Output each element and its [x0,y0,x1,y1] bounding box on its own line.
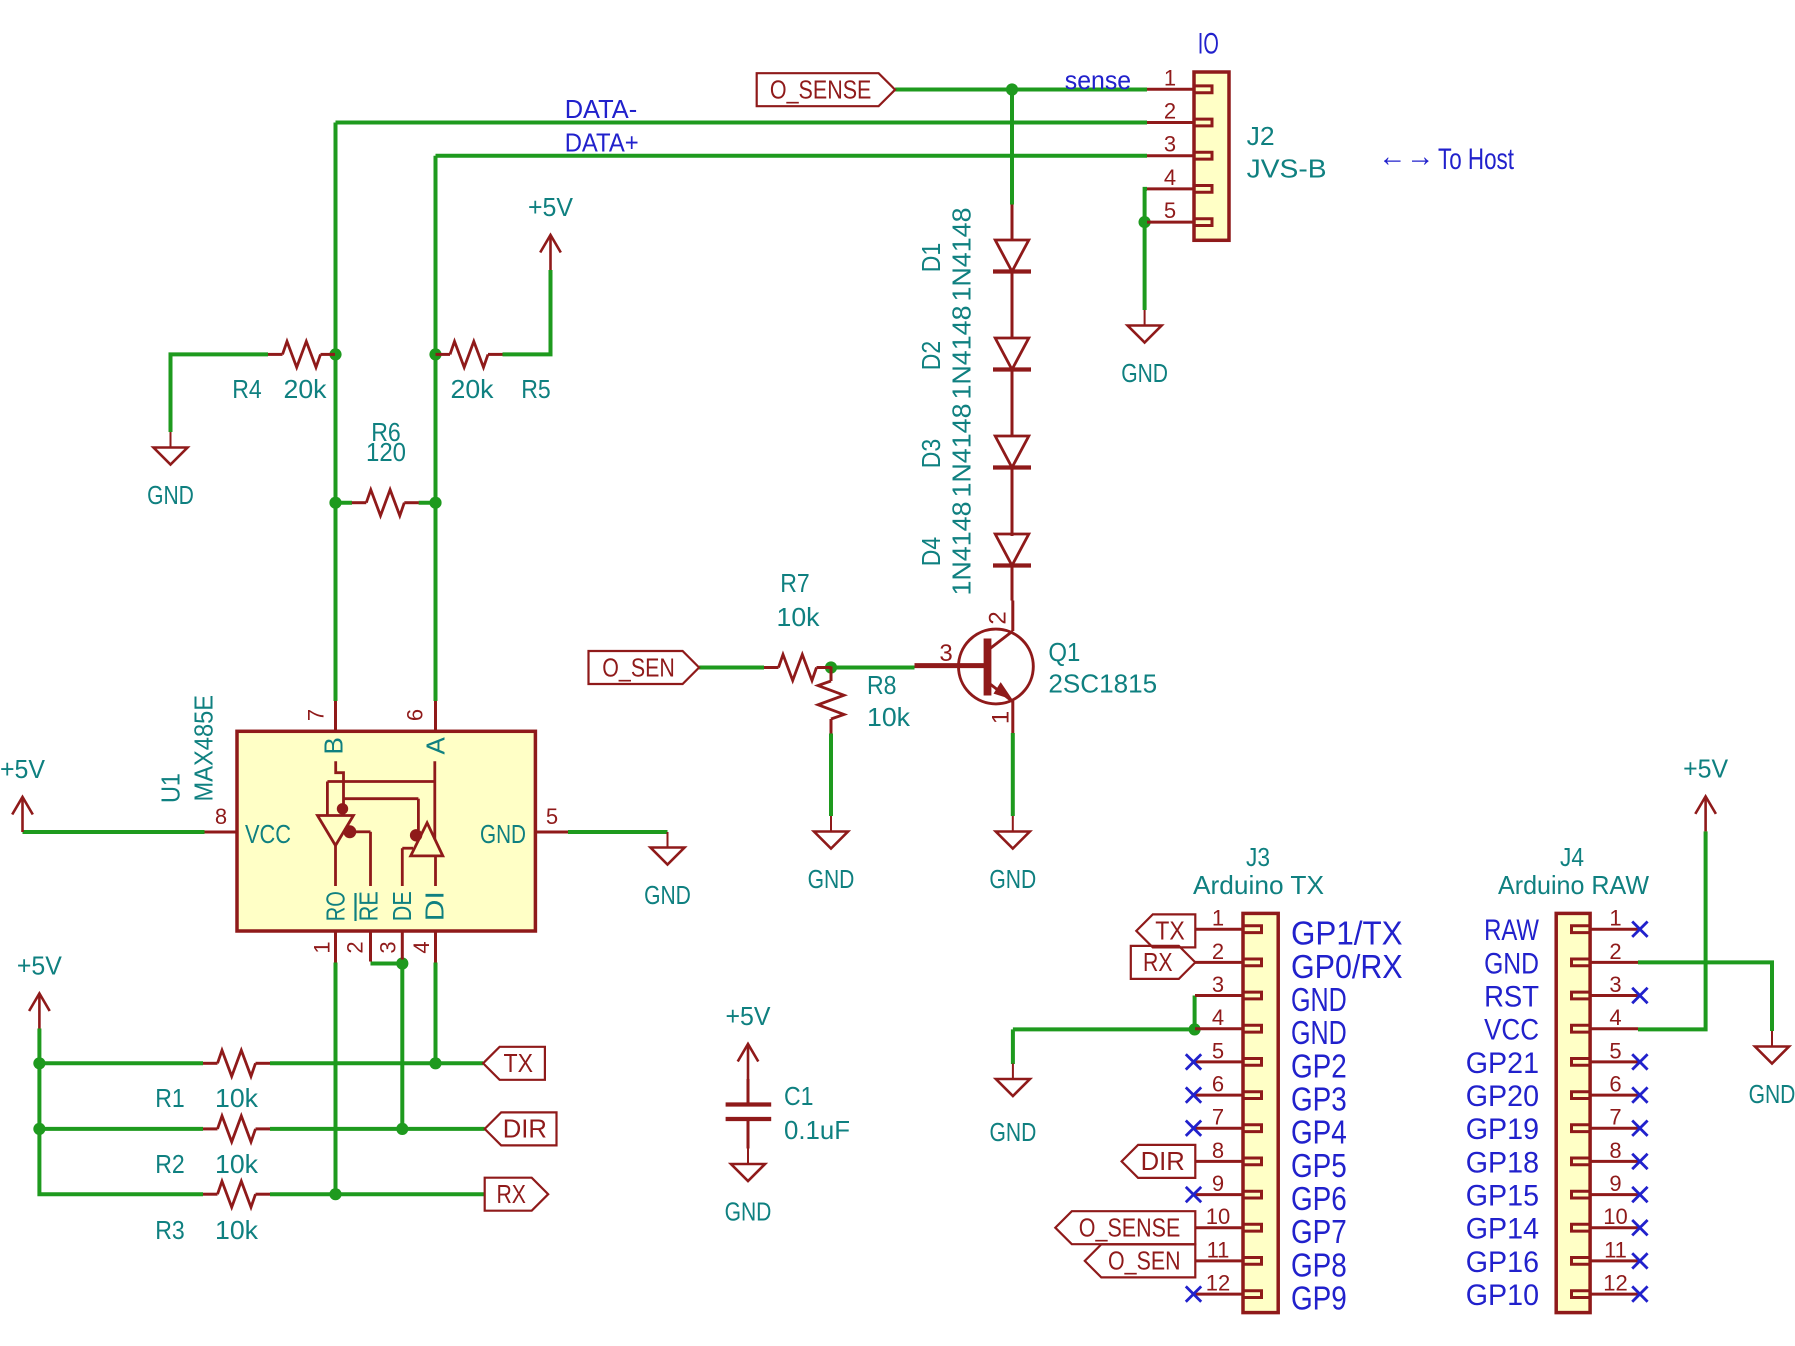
global label DIR (row) [485,1112,557,1145]
wire U1 DI to TX row [434,963,438,1064]
connector J4 body [1556,913,1590,1312]
wire J2 gnd drop [1143,222,1147,310]
J3 pin 12 no-connect [1186,1286,1201,1301]
svg-text:6: 6 [403,709,428,721]
J4 pin 8 no-connect [1632,1154,1647,1169]
svg-text:9: 9 [1212,1171,1224,1196]
svg-text:7: 7 [304,709,329,721]
svg-text:11: 11 [1604,1237,1627,1262]
global label O_SEN (J3) [1085,1244,1196,1277]
global label RX (J3) [1131,946,1196,979]
wire J2 pin4 to pin5 [1145,189,1147,222]
svg-text:GP2: GP2 [1291,1047,1347,1084]
svg-text:20k: 20k [284,374,328,404]
svg-text:1N4148: 1N4148 [947,404,977,498]
diode D4 1N4148 [995,534,1029,566]
svg-text:GP1/TX: GP1/TX [1291,915,1403,952]
wire R4 to GND [171,354,269,432]
svg-text:GND: GND [989,864,1036,894]
J4 pin 3 [1590,994,1638,997]
global label O_SENSE (top) [757,73,895,106]
J3 pin 9 [1195,1193,1243,1196]
J4 pin 6 [1590,1094,1638,1097]
diode D3 1N4148 [995,436,1029,468]
svg-text:1: 1 [987,711,1014,724]
resistor R8 [830,667,833,682]
junction sense/D1 [1006,83,1018,95]
svg-text:2SC1815: 2SC1815 [1048,669,1157,699]
wire rail to R2 [39,1127,203,1131]
wire J4 pin4 to +5V [1638,831,1706,1029]
J4 pin 9 [1590,1193,1638,1196]
svg-text:R2: R2 [155,1149,185,1179]
svg-text:MAX485E: MAX485E [189,695,219,802]
svg-text:GP15: GP15 [1466,1180,1539,1213]
svg-text:3: 3 [1212,972,1224,997]
svg-text:A: A [421,736,451,754]
J4 pin 10 [1590,1226,1638,1229]
svg-text:RE: RE [354,891,384,921]
J4 pin 9 no-connect [1632,1187,1647,1202]
power +5V (C1) [747,1044,750,1079]
J4 pin 2 [1590,961,1638,964]
U1 pins [334,701,337,731]
svg-text:Arduino TX: Arduino TX [1193,870,1324,900]
svg-text:+5V: +5V [1683,753,1729,783]
svg-text:TX: TX [504,1048,534,1078]
svg-text:+5V: +5V [528,192,574,222]
junction R4/DATA- [329,348,341,360]
junction J3 pin4 [1189,1023,1201,1035]
ground (J4 pin2) [1771,1031,1773,1046]
svg-text:DATA+: DATA+ [565,127,639,157]
J2 pin 5 [1147,221,1194,224]
svg-text:1N4148: 1N4148 [947,208,977,302]
svg-text:3: 3 [1164,132,1176,157]
svg-text:J2: J2 [1247,121,1275,151]
diode D1 1N4148 [995,240,1029,272]
svg-text:DIR: DIR [1141,1146,1185,1176]
svg-text:10k: 10k [215,1083,259,1113]
wire DATA- horizontal [336,121,1148,125]
svg-text:GND: GND [1749,1079,1795,1109]
ground (J3 pins3-4) [1012,1064,1014,1079]
connector J3 body [1243,913,1278,1312]
svg-text:GP3: GP3 [1291,1081,1347,1118]
wire +5V to U1 VCC [23,830,205,834]
svg-text:VCC: VCC [245,819,291,849]
svg-text:R7: R7 [780,568,810,598]
svg-text:GP14: GP14 [1466,1213,1539,1246]
wire U1 RE elbow [371,962,403,966]
svg-text:GND: GND [808,864,855,894]
J4 pin 11 no-connect [1632,1253,1647,1268]
J3 pin 5 no-connect [1186,1054,1201,1069]
connector J2 body [1194,72,1229,240]
junction R6 left [329,497,341,509]
svg-text:120: 120 [366,437,406,467]
wire J3 gnd drop [1011,1029,1015,1064]
svg-text:10: 10 [1206,1204,1230,1229]
svg-text:10k: 10k [215,1149,259,1179]
wire R5 to +5V [503,270,551,354]
svg-text:Q1: Q1 [1048,637,1080,667]
svg-text:RAW: RAW [1484,914,1539,947]
J3 pin 8 [1195,1160,1243,1163]
power +5V (pullup rail) [38,994,41,1029]
svg-text:GP10: GP10 [1466,1279,1539,1312]
svg-text:To Host: To Host [1438,143,1514,176]
svg-text:O_SENSE: O_SENSE [770,75,872,105]
wire J3 gnd horizontal [1013,1027,1195,1031]
resistor R5 [436,353,451,356]
svg-text:RO: RO [321,891,351,921]
J3 pin 5 [1195,1060,1243,1063]
junction DI/TX row [429,1057,441,1069]
wire DATA+ horizontal [436,154,1148,158]
ground (J2 pin5) [1144,310,1146,325]
svg-text:9: 9 [1609,1171,1621,1196]
junction rail/DIR row [33,1123,45,1135]
svg-text:1: 1 [310,941,335,953]
svg-text:1N4148: 1N4148 [947,502,977,596]
svg-text:+5V: +5V [726,1001,772,1031]
resistor R3 [203,1193,218,1196]
svg-text:5: 5 [1609,1038,1621,1063]
resistor R7 [764,666,779,669]
wire rail to R1 [39,1061,203,1065]
svg-text:5: 5 [1212,1038,1224,1063]
svg-text:10k: 10k [777,602,821,632]
J3 pin 12 [1195,1293,1243,1296]
junction R6 right [429,497,441,509]
U1 internal receiver/driver [336,761,344,815]
svg-text:R4: R4 [232,374,262,404]
svg-text:R8: R8 [867,670,897,700]
svg-text:2: 2 [1212,939,1224,964]
svg-text:4: 4 [409,941,434,953]
svg-text:TX: TX [1155,916,1185,946]
svg-text:8: 8 [1212,1138,1224,1163]
svg-text:1: 1 [1164,65,1176,90]
resistor R2 [203,1127,218,1130]
power +5V (J4 VCC) [1704,796,1707,831]
svg-text:D2: D2 [916,341,946,371]
J4 pin 12 no-connect [1632,1286,1647,1301]
svg-text:11: 11 [1207,1237,1230,1262]
svg-text:D3: D3 [916,439,946,469]
svg-text:DIR: DIR [503,1114,547,1144]
wire U1 RO to RX row [334,963,338,1195]
svg-text:RX: RX [496,1179,526,1209]
svg-text:GP8: GP8 [1291,1246,1347,1283]
svg-text:O_SEN: O_SEN [602,652,675,682]
global label TX (row) [483,1047,545,1080]
svg-text:2: 2 [342,941,367,953]
J4 pin 7 no-connect [1632,1121,1647,1136]
ground (U1 pin5) [667,832,669,847]
svg-text:5: 5 [1164,198,1176,223]
svg-text:12: 12 [1603,1271,1627,1296]
svg-text:VCC: VCC [1484,1014,1539,1047]
J2 pin 4 [1147,187,1194,190]
J4 pin 6 no-connect [1632,1087,1647,1102]
svg-text:C1: C1 [784,1081,814,1111]
svg-text:5: 5 [546,804,558,829]
junction R5/DATA+ [429,348,441,360]
svg-text:1: 1 [1212,906,1224,931]
svg-text:RX: RX [1143,947,1173,977]
svg-text:←→: ←→ [1378,140,1434,173]
J4 pin 5 [1590,1060,1638,1063]
resistor R4 [268,353,283,356]
wire J2 pin5 stub [1145,220,1147,224]
wire J3 pin3 drop [1193,996,1197,1030]
J3 pin 1 [1195,928,1243,931]
svg-text:3: 3 [939,640,952,667]
svg-text:D4: D4 [916,537,946,567]
resistor R6 [352,501,367,504]
wire DE/RE to DIR row [400,964,404,1129]
J2 pin 1 [1147,88,1194,91]
svg-text:4: 4 [1212,1005,1224,1030]
svg-text:J4: J4 [1560,842,1584,872]
junction RE/DE [396,957,408,969]
wire sense net [895,88,1147,92]
wire U1 DE stub [400,960,404,964]
svg-text:+5V: +5V [0,754,46,784]
junction DE/DIR row [396,1123,408,1135]
svg-text:GP19: GP19 [1466,1113,1539,1146]
capacitor C1 [747,1079,750,1105]
svg-text:R3: R3 [155,1215,185,1245]
svg-text:GND: GND [1291,1014,1347,1051]
J3 pin 4 [1195,1027,1243,1030]
J3 pin 7 no-connect [1186,1121,1201,1136]
junction J2 pin5 [1139,216,1151,228]
diode chain leads [1011,205,1014,240]
svg-text:7: 7 [1212,1105,1224,1130]
J3 pin 3 [1195,994,1243,997]
J4 pin 12 [1590,1293,1638,1296]
svg-text:JVS-B: JVS-B [1247,154,1327,184]
J4 pin 4 [1590,1027,1638,1030]
svg-text:R1: R1 [155,1083,185,1113]
svg-text:IO: IO [1198,27,1219,60]
J3 pin 9 no-connect [1186,1187,1201,1202]
svg-text:GP18: GP18 [1466,1146,1539,1179]
svg-text:U1: U1 [155,773,185,803]
J4 pin 10 no-connect [1632,1220,1647,1235]
svg-text:B: B [319,737,349,754]
svg-text:GP16: GP16 [1466,1246,1539,1279]
global label TX (J3) [1136,914,1195,947]
svg-text:GND: GND [1484,947,1539,980]
J3 pin 10 [1195,1226,1243,1229]
ground (Q1 emitter) [1012,816,1014,831]
J3 pin 2 [1195,961,1243,964]
svg-text:DE: DE [387,891,417,921]
svg-text:GP20: GP20 [1466,1080,1539,1113]
wire R1 to TX label [270,1061,483,1065]
svg-text:1N4148: 1N4148 [947,306,977,400]
svg-text:J3: J3 [1246,842,1270,872]
svg-text:2: 2 [984,611,1011,624]
ground (R4) [170,432,172,447]
J4 pin 5 no-connect [1632,1054,1647,1069]
J4 pin 3 no-connect [1632,988,1647,1003]
svg-text:7: 7 [1609,1105,1621,1130]
svg-text:GP0/RX: GP0/RX [1291,948,1403,985]
global label O_SENSE (J3) [1055,1211,1195,1244]
svg-text:GND: GND [1291,981,1347,1018]
svg-text:GP9: GP9 [1291,1280,1347,1317]
J3 pin 7 [1195,1127,1243,1130]
power +5V (U1 VCC) [21,797,24,832]
svg-text:3: 3 [376,941,401,953]
resistor R1 [203,1062,218,1065]
svg-text:GP4: GP4 [1291,1114,1347,1151]
J2 pin 2 [1147,121,1194,124]
wire Q1 emitter to GND [1011,733,1015,816]
svg-text:1: 1 [1609,906,1621,931]
svg-text:10k: 10k [867,702,911,732]
svg-text:10k: 10k [215,1215,259,1245]
svg-text:GND: GND [725,1197,772,1227]
svg-text:RST: RST [1484,981,1539,1014]
svg-text:O_SENSE: O_SENSE [1079,1213,1181,1243]
svg-text:DI: DI [419,891,449,921]
J4 pin 1 [1590,928,1638,931]
wire J4 pin2 to GND [1638,962,1772,1031]
power +5V (R5) [549,235,552,270]
junction R7/R8 [825,661,837,673]
svg-text:sense: sense [1065,65,1131,95]
global label O_SEN (R7) [589,651,700,684]
wire U1 GND pin 5 [568,830,668,834]
transistor Q1 2SC1815 [959,629,1034,704]
junction rail/TX row [33,1057,45,1069]
wire R3 to RX label [270,1192,485,1196]
svg-text:R5: R5 [521,374,551,404]
diode D2 1N4148 [995,338,1029,370]
J3 pin 11 [1195,1259,1243,1262]
svg-text:+5V: +5V [17,951,63,981]
wire O_SEN to R7 [699,666,764,670]
wire R6 left stub [336,501,353,505]
junction RO/RX row [329,1188,341,1200]
J2 pin 3 [1147,154,1194,157]
svg-text:10: 10 [1603,1204,1627,1229]
svg-text:4: 4 [1609,1005,1621,1030]
svg-text:6: 6 [1212,1072,1224,1097]
wire R6 right stub [419,501,436,505]
svg-text:8: 8 [1609,1138,1621,1163]
J3 pin 6 no-connect [1186,1087,1201,1102]
J3 pin 6 [1195,1094,1243,1097]
svg-text:GND: GND [644,880,691,910]
svg-text:20k: 20k [451,374,495,404]
svg-text:GP6: GP6 [1291,1180,1347,1217]
svg-text:GND: GND [990,1117,1037,1147]
svg-text:6: 6 [1609,1072,1621,1097]
J4 pin 1 no-connect [1632,922,1647,937]
svg-text:3: 3 [1609,972,1621,997]
J4 pin 7 [1590,1127,1638,1130]
svg-text:GND: GND [480,819,526,849]
svg-text:GP21: GP21 [1466,1047,1539,1080]
wire R7 to Q1 base [831,666,915,670]
J4 pin 11 [1590,1259,1638,1262]
ground (C1) [747,1149,749,1164]
wire R2 to DIR label [270,1127,485,1131]
svg-text:O_SEN: O_SEN [1108,1246,1181,1276]
svg-text:0.1uF: 0.1uF [784,1115,850,1145]
svg-text:GND: GND [147,480,194,510]
svg-text:D1: D1 [916,243,946,273]
wire +5V rail left [39,1029,203,1195]
svg-text:Arduino RAW: Arduino RAW [1498,870,1649,900]
wire R8 to GND [829,734,833,817]
svg-text:2: 2 [1609,939,1621,964]
svg-text:GP5: GP5 [1291,1147,1347,1184]
J4 pin 8 [1590,1160,1638,1163]
op-amp U1 MAX485E body [237,731,535,931]
svg-text:4: 4 [1164,165,1176,190]
wire DATA+ vertical [434,156,438,701]
svg-text:DATA-: DATA- [565,94,638,124]
svg-text:2: 2 [1164,99,1176,124]
wire sense drop to D1 [1010,90,1014,205]
svg-text:GP7: GP7 [1291,1213,1347,1250]
global label RX (row) [485,1178,549,1211]
wire DATA- vertical [334,123,338,702]
svg-text:GND: GND [1121,358,1168,388]
svg-text:8: 8 [215,804,227,829]
ground (R8) [830,816,832,831]
svg-text:12: 12 [1206,1271,1230,1296]
global label DIR (J3) [1122,1145,1196,1178]
